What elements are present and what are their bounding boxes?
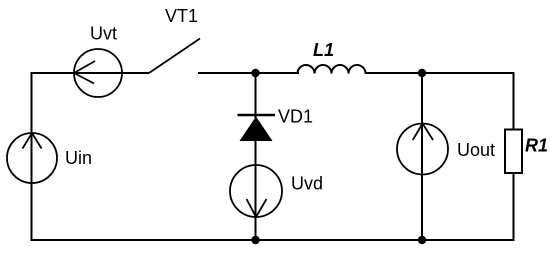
wire inductor to right corner xyxy=(365,72,514,74)
voltage source Uout xyxy=(397,124,448,175)
svg-text:L1: L1 xyxy=(313,40,334,60)
inductor L1 xyxy=(298,65,366,74)
svg-text:Uvt: Uvt xyxy=(90,24,117,44)
wire left vertical xyxy=(31,73,33,240)
voltage source Uvt xyxy=(74,49,122,97)
svg-text:R1: R1 xyxy=(525,136,548,156)
svg-text:Uin: Uin xyxy=(65,148,92,168)
node junction bottom of Uout xyxy=(418,236,426,244)
wire right vertical R1 branch xyxy=(513,72,515,241)
svg-text:Uvd: Uvd xyxy=(291,174,323,194)
node junction bottom of diode xyxy=(251,236,259,244)
svg-text:VT1: VT1 xyxy=(165,6,198,26)
wire diode branch vertical xyxy=(255,73,257,240)
node junction top of Uout xyxy=(418,69,426,77)
voltage source Uin xyxy=(7,133,57,183)
voltage source Uvd xyxy=(230,165,282,217)
wire switch to node xyxy=(198,72,299,74)
switch VT1 blade xyxy=(149,39,200,74)
wire bottom horizontal xyxy=(31,239,515,241)
node junction top of diode xyxy=(251,69,259,77)
wire Uout branch vertical xyxy=(421,73,423,240)
diode VD1 xyxy=(238,115,276,141)
svg-text:VD1: VD1 xyxy=(278,107,313,127)
wire top-left horizontal xyxy=(31,72,150,74)
svg-text:Uout: Uout xyxy=(457,140,495,160)
resistor R1 xyxy=(505,130,522,174)
